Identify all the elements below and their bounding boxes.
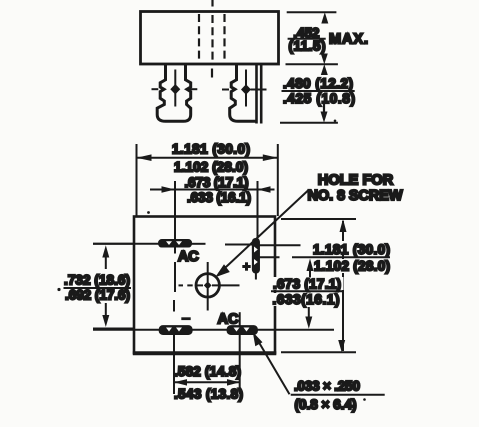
left terminal hole tick left	[152, 88, 159, 90]
mounting hole center mark	[204, 281, 212, 289]
svg-text:(11.5): (11.5)	[289, 38, 326, 53]
svg-text:NO. 8 SCREW: NO. 8 SCREW	[308, 188, 403, 204]
left dim top extension line	[93, 243, 134, 245]
hidden hole dashed line left	[198, 14, 200, 62]
bottom-left terminal slot	[159, 326, 192, 334]
mounting hole crosshair horizontal dashes	[179, 284, 240, 286]
right terminal hole tick right	[251, 89, 267, 91]
right dim arrow down .633	[305, 307, 312, 329]
right dim square-top extension line	[281, 218, 356, 220]
right terminal outer edge line	[260, 65, 263, 124]
svg-text:.582 (14.8): .582 (14.8)	[174, 364, 241, 379]
scan speck	[147, 211, 150, 214]
left terminal hole tick right	[189, 88, 198, 90]
right slot column tail below	[255, 273, 257, 280]
svg-text:1.102 (28.0): 1.102 (28.0)	[174, 160, 248, 175]
hole leader line	[219, 191, 308, 274]
left terminal hole centerline	[174, 70, 176, 107]
svg-text:.033 × .250: .033 × .250	[294, 378, 360, 393]
slot leader line	[256, 337, 290, 395]
top view body outline	[141, 12, 279, 65]
svg-text:.543 (13.8): .543 (13.8)	[174, 386, 243, 401]
dim text .673 (17.1) right	[272, 276, 344, 291]
left terminal hole diamond	[170, 84, 180, 94]
mounting hole crosshair vertical	[207, 262, 209, 311]
svg-text:.732 (18.6): .732 (18.6)	[64, 273, 130, 288]
svg-text:MAX.: MAX.	[329, 32, 368, 48]
right dim arrow up 1.181	[340, 219, 347, 232]
dim text 1.102 (28.0) right	[314, 259, 392, 274]
right terminal inner edge line	[255, 65, 258, 124]
dim text .633 (16.1) right	[272, 292, 342, 307]
mounting hole circle	[196, 274, 219, 297]
svg-text:.480 (12.2): .480 (12.2)	[283, 76, 353, 91]
right dim arrow down 1.181	[338, 340, 345, 352]
right dim line 1.181 vertical	[342, 221, 344, 351]
bottom dim line .582 with arrows	[174, 379, 240, 386]
scan speck	[57, 288, 60, 291]
svg-text:1.181 (30.0): 1.181 (30.0)	[313, 242, 390, 257]
svg-text:.633(16.1): .633(16.1)	[273, 292, 340, 307]
svg-text:1.181 (30.0): 1.181 (30.0)	[172, 142, 250, 157]
label +	[242, 262, 250, 270]
dim text 1.181 (30.0) right	[312, 241, 392, 257]
left dim arrow up	[102, 245, 109, 269]
svg-text:(0.8 × 6.4): (0.8 × 6.4)	[295, 397, 357, 412]
svg-text:.692 (17.6): .692 (17.6)	[65, 288, 130, 303]
svg-text:AC: AC	[218, 311, 239, 327]
bottom view body outline	[134, 217, 275, 354]
fraction bar 1.181/1.102 right	[292, 256, 390, 258]
fraction bar .480/.425	[282, 90, 355, 92]
left dim arrow down	[102, 303, 109, 327]
svg-text:.633 (16.1): .633 (16.1)	[187, 190, 251, 205]
svg-text:.673 (17.1): .673 (17.1)	[273, 276, 341, 291]
fraction bar .033/.0.8	[291, 394, 385, 396]
svg-text:AC: AC	[178, 249, 199, 265]
extension line bottom of body	[286, 63, 338, 65]
right terminal outline	[230, 65, 257, 122]
right slot centerline to edge	[259, 256, 279, 258]
right terminal hole centerline	[245, 70, 247, 107]
svg-text:1.102 (28.0): 1.102 (28.0)	[314, 259, 390, 274]
left dim bottom extension line	[93, 328, 134, 330]
right terminal hole tick left	[222, 89, 229, 91]
svg-text:.425 (10.8): .425 (10.8)	[283, 91, 355, 106]
hidden hole dashed centerline	[211, 0, 214, 78]
bottom-right terminal slot	[227, 326, 257, 334]
fraction bar .673/.633 right	[271, 290, 344, 292]
fraction bar .732/.692	[64, 287, 132, 289]
dim extension line x136.5 (1.181 left)	[136, 144, 138, 216]
dim extension line x175 (.673 left)	[174, 181, 176, 240]
right slot column centerline segments	[239, 312, 241, 394]
svg-text:HOLE FOR: HOLE FOR	[318, 173, 394, 189]
dim arrow down to terminal tip	[321, 104, 328, 123]
dim extension line x277.5 (1.181 right)	[277, 144, 279, 216]
hole leader arrowhead	[215, 264, 230, 277]
dim line 1.181 with arrows	[137, 154, 278, 161]
fraction bar .452/(11.5)	[288, 38, 326, 40]
bottom view body bottom thick edge	[133, 351, 276, 355]
dim line .673 with outside arrows	[150, 186, 275, 192]
bottom slot row centerline segments	[93, 329, 334, 331]
label minus	[181, 317, 190, 320]
dim hourglass arrows at body bottom	[321, 54, 328, 76]
right dim square-bottom extension line	[281, 351, 356, 353]
dim arrow up to body top	[321, 12, 328, 23]
right terminal hole diamond	[241, 84, 251, 94]
top-left terminal slot	[159, 240, 192, 247]
dim extension line x257.5 (.673 right)	[257, 181, 259, 239]
scan speck	[334, 120, 337, 123]
scan speck	[363, 398, 366, 401]
extension line top of body (.452 max)	[287, 11, 337, 13]
svg-text:.673 (17.1): .673 (17.1)	[185, 175, 249, 190]
extension line terminal tip	[280, 122, 338, 124]
slot leader arrowhead	[253, 332, 263, 347]
top slot row centerline segments	[93, 244, 301, 246]
right dim arrow up .673	[307, 259, 314, 279]
right terminal slot (vertical)	[253, 239, 260, 273]
left slot column centerline segments	[174, 247, 175, 394]
left terminal outline	[157, 65, 191, 122]
hidden hole dashed line right	[223, 14, 225, 62]
